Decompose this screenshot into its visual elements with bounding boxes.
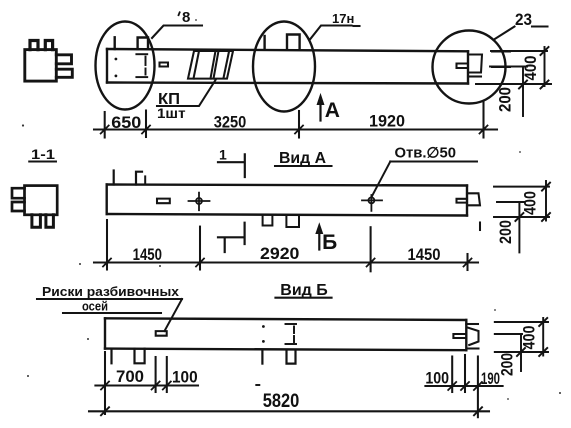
- svg-text:2920: 2920: [260, 245, 299, 263]
- svg-text:8: 8: [182, 9, 190, 26]
- svg-text:Б: Б: [322, 231, 337, 254]
- svg-text:17н: 17н: [332, 11, 354, 26]
- svg-text:100: 100: [172, 369, 198, 387]
- svg-text:1450: 1450: [133, 246, 162, 264]
- svg-text:1450: 1450: [408, 246, 441, 264]
- svg-text:1920: 1920: [369, 113, 405, 131]
- svg-text:650: 650: [111, 114, 141, 132]
- svg-text:5820: 5820: [263, 390, 300, 412]
- svg-text:1шт: 1шт: [157, 106, 186, 121]
- svg-text:200: 200: [497, 220, 515, 244]
- svg-text:700: 700: [116, 368, 144, 386]
- svg-text:Риски разбивочных: Риски разбивочных: [42, 284, 180, 299]
- svg-text:1-1: 1-1: [31, 146, 55, 162]
- svg-text:осей: осей: [82, 299, 108, 314]
- svg-text:190: 190: [481, 370, 500, 388]
- svg-text:400: 400: [522, 191, 540, 215]
- svg-text:3250: 3250: [214, 114, 247, 132]
- svg-text:100: 100: [425, 370, 449, 388]
- svg-text:400: 400: [521, 326, 539, 350]
- svg-text:23: 23: [515, 10, 532, 29]
- svg-text:1: 1: [219, 147, 227, 163]
- svg-text:А: А: [325, 99, 340, 122]
- svg-text:400: 400: [522, 56, 540, 81]
- svg-text:Отв.∅50: Отв.∅50: [395, 146, 457, 162]
- svg-text:Вид А: Вид А: [279, 150, 326, 167]
- svg-text:Вид Б: Вид Б: [280, 282, 327, 299]
- svg-text:200: 200: [497, 87, 515, 112]
- svg-text:200: 200: [499, 353, 517, 376]
